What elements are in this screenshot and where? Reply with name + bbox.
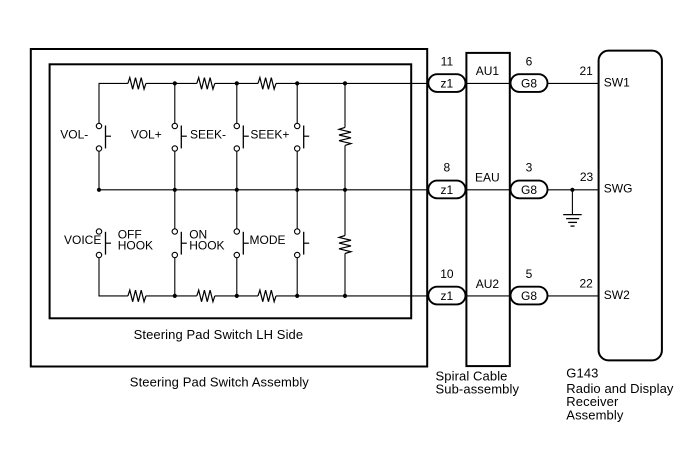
switch VOL+	[172, 123, 187, 151]
svg-text:22: 22	[579, 277, 593, 291]
junction row2 b4	[295, 188, 299, 192]
svg-text:Sub-assembly: Sub-assembly	[436, 382, 520, 397]
caption G143 Radio and Display Receiver Assembly	[566, 365, 674, 422]
junction row2 resistor column	[343, 188, 347, 192]
junction row1 SEEK+	[295, 81, 299, 85]
svg-text:11: 11	[441, 54, 454, 68]
junction row2 b3	[235, 188, 239, 192]
junction row2 b1	[97, 188, 101, 192]
spiral cable sub-assembly box	[466, 53, 509, 366]
svg-text:HOOK: HOOK	[189, 239, 224, 253]
wire branch SEEK+ column	[296, 83, 298, 189]
svg-text:Steering Pad Switch LH Side: Steering Pad Switch LH Side	[134, 327, 304, 342]
wire branch ON HOOK column	[236, 190, 238, 296]
label OFF HOOK	[118, 228, 153, 253]
resistor R4 (vertical, upper)	[339, 127, 351, 145]
junction row3 b4	[295, 294, 299, 298]
resistor R8 (row 3, between ON HOOK and MODE)	[258, 290, 276, 302]
svg-text:AU2: AU2	[476, 277, 500, 291]
svg-text:8: 8	[444, 161, 451, 175]
wire branch resistor column	[344, 83, 346, 296]
svg-text:HOOK: HOOK	[118, 239, 153, 253]
svg-text:3: 3	[526, 161, 533, 175]
switch SEEK+	[295, 123, 310, 151]
resistor R6 (row 3, between VOICE and OFF HOOK)	[128, 290, 146, 302]
junction row2 b2	[173, 188, 177, 192]
label ON HOOK	[189, 228, 224, 253]
svg-text:G8: G8	[521, 183, 537, 197]
junction row3 resistor column	[343, 294, 347, 298]
junction ground tap	[570, 188, 574, 192]
resistor R5 (vertical, lower)	[339, 236, 351, 254]
junction row1 resistor column	[343, 81, 347, 85]
svg-text:G143: G143	[566, 365, 598, 380]
svg-text:VOICE: VOICE	[64, 233, 101, 247]
svg-text:AU1: AU1	[476, 64, 500, 78]
wire branch MODE column	[296, 190, 298, 296]
svg-text:Steering Pad Switch Assembly: Steering Pad Switch Assembly	[130, 375, 310, 390]
switch VOICE	[96, 229, 111, 258]
svg-text:z1: z1	[441, 183, 454, 197]
svg-text:VOL-: VOL-	[60, 127, 88, 141]
svg-text:SEEK-: SEEK-	[190, 127, 226, 141]
inner box Steering Pad Switch LH Side	[50, 64, 412, 318]
wire row 2 (EAU net)	[99, 151, 599, 190]
resistor R1 (row 1, between VOL- and VOL+)	[128, 78, 146, 90]
svg-text:G8: G8	[521, 77, 537, 91]
switch SEEK-	[234, 123, 249, 151]
svg-text:SW1: SW1	[604, 75, 630, 89]
wire branch SEEK- column	[236, 83, 238, 189]
svg-text:z1: z1	[441, 77, 454, 91]
junction row3 b3	[235, 294, 239, 298]
connector z1 pin 8	[428, 181, 465, 199]
switch ON HOOK	[234, 229, 249, 258]
svg-text:Assembly: Assembly	[566, 407, 624, 422]
junction row1 VOL+	[173, 81, 177, 85]
ground	[563, 190, 582, 226]
caption Spiral Cable Sub-assembly	[436, 369, 520, 397]
svg-text:6: 6	[526, 54, 533, 68]
svg-text:5: 5	[526, 267, 533, 281]
svg-text:MODE: MODE	[250, 233, 286, 247]
wire branch VOL+ column	[174, 83, 176, 189]
junction row3 b2	[173, 294, 177, 298]
resistor R7 (row 3, between OFF HOOK and ON HOOK)	[197, 290, 215, 302]
wire row 3 (AU2 net)	[99, 258, 599, 296]
svg-text:G8: G8	[521, 289, 537, 303]
svg-text:21: 21	[579, 64, 593, 78]
radio and display receiver assembly box	[599, 51, 662, 361]
connector z1 pin 11	[428, 74, 465, 92]
connector G8 pin 6	[511, 74, 548, 92]
resistor R2 (row 1, between VOL+ and SEEK-)	[197, 78, 215, 90]
wire branch OFF HOOK column	[174, 190, 176, 296]
junction row1 SEEK-	[235, 81, 239, 85]
svg-text:SW2: SW2	[604, 288, 630, 302]
switch VOL-	[96, 123, 111, 151]
svg-text:10: 10	[440, 267, 454, 281]
svg-text:VOL+: VOL+	[131, 127, 162, 141]
wire row 1 (AU1 net)	[99, 83, 599, 123]
svg-text:EAU: EAU	[475, 171, 500, 185]
connector G8 pin 5	[511, 287, 548, 305]
switch MODE	[295, 229, 310, 258]
connector z1 pin 10	[428, 287, 465, 305]
svg-text:z1: z1	[441, 289, 454, 303]
outer box Steering Pad Switch Assembly	[31, 49, 427, 367]
switch OFF HOOK	[172, 229, 187, 258]
resistor R3 (row 1, between SEEK- and SEEK+)	[258, 78, 276, 90]
svg-text:SEEK+: SEEK+	[250, 127, 289, 141]
svg-text:23: 23	[580, 170, 594, 184]
connector G8 pin 3	[511, 181, 548, 199]
svg-text:SWG: SWG	[604, 182, 633, 196]
